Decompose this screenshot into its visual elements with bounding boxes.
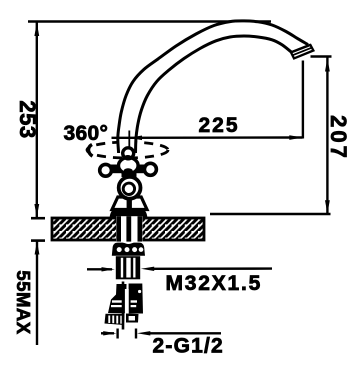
shank stripe left: [116, 216, 121, 241]
55MAX top tick: [31, 239, 45, 242]
aerator: [291, 45, 313, 59]
svg-text:207: 207: [326, 115, 351, 161]
handle neck: [122, 172, 137, 177]
M32X1.5 left arrow: [87, 268, 112, 270]
dimension 207 top arrow: [325, 58, 330, 72]
extension tick at aerator outlet: [311, 55, 332, 57]
base collar: [110, 208, 148, 218]
handle bar: [111, 165, 147, 174]
55MAX dimension line: [36, 241, 38, 345]
dimension 225 right arrow: [289, 135, 302, 140]
shank gap in deck: [116, 216, 143, 241]
body sphere: [119, 177, 141, 199]
extension line below spout tip: [302, 61, 304, 139]
svg-text:360°: 360°: [64, 122, 109, 145]
hose left tail: [108, 284, 127, 314]
M32X1.5 right arrow and leader: [141, 267, 154, 271]
body sphere inner circle: [123, 183, 134, 194]
hose white channel: [125, 289, 129, 314]
hose right tail: [129, 284, 143, 314]
hose right foot: [126, 314, 139, 323]
aerator mid line: [292, 48, 312, 56]
threaded shank: [116, 256, 140, 279]
svg-text:2-G1/2: 2-G1/2: [153, 335, 224, 358]
hose centerline: [122, 282, 125, 330]
knob circle: [123, 148, 134, 159]
spout outer edge: [118, 21, 308, 153]
dimension 207 bottom arrow: [325, 200, 330, 214]
top extension line: [28, 20, 271, 23]
shank stripe right: [138, 216, 143, 241]
deck slab: [52, 218, 204, 240]
svg-text:253: 253: [15, 100, 40, 138]
knob inner dark: [124, 155, 132, 159]
hose left white slots: [112, 300, 123, 302]
tick left: [116, 329, 118, 339]
dimension 253 bottom arrow: [34, 204, 39, 218]
tick right: [135, 329, 137, 339]
left handle circle: [100, 164, 112, 176]
foot white ribs: [108, 316, 110, 324]
right handle circle: [144, 163, 156, 175]
svg-text:55MAX: 55MAX: [13, 270, 34, 334]
right foot white mark: [129, 316, 135, 321]
2-G1/2 right arrow and leader: [137, 331, 150, 335]
locknut white dots: [117, 247, 122, 252]
dimension 225 line: [112, 136, 303, 139]
svg-text:225: 225: [199, 114, 240, 137]
spout inner edge: [136, 36, 292, 153]
dimension 253 line: [36, 22, 38, 217]
shank stripe middle: [126, 216, 131, 241]
hub ellipse: [119, 158, 139, 174]
hose right white dot: [138, 290, 141, 293]
dimension 253 bottom tick: [31, 217, 45, 220]
dimension 253 top arrow: [34, 23, 39, 37]
spout fill: [118, 21, 308, 153]
rotation ellipse left arrow end: [89, 145, 93, 157]
svg-text:M32X1.5: M32X1.5: [166, 272, 263, 295]
dimension 207 line: [326, 58, 328, 214]
2-G1/2 left arrow: [101, 332, 114, 334]
rotation dashed ellipse: [87, 142, 168, 158]
55MAX up arrow: [35, 241, 40, 255]
spout tip face: [291, 45, 310, 53]
dimension 225 left arrow: [129, 136, 142, 141]
hose left ribbed foot: [105, 314, 125, 325]
locknut: [112, 243, 145, 256]
body cone: [112, 197, 147, 210]
faucet centerline: [128, 131, 130, 197]
hose right white slots: [131, 300, 137, 302]
thread white stripes: [121, 258, 123, 278]
body cone center stripe: [127, 196, 132, 209]
hub inner dark: [124, 168, 133, 174]
extension line deck top right: [210, 213, 331, 215]
